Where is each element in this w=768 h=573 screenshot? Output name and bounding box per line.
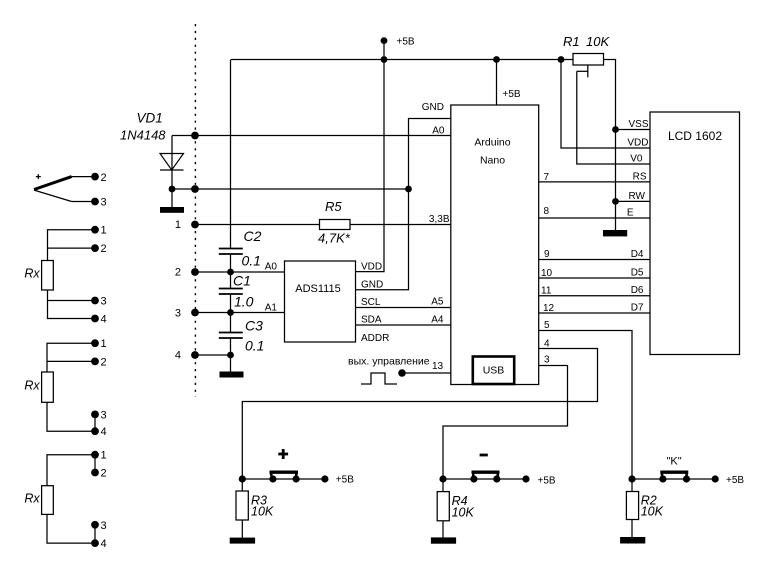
capacitor C1 bbox=[219, 273, 254, 310]
svg-text:VD1: VD1 bbox=[137, 111, 163, 126]
svg-text:3,3В: 3,3В bbox=[429, 214, 450, 225]
wire R1 wiper bbox=[577, 65, 650, 164]
ground diode bbox=[160, 189, 184, 213]
wire +5V vertical to ADS VDD bbox=[356, 60, 385, 272]
wire pin4 to R3 button bbox=[242, 349, 597, 480]
wire Rx3 terminal1 to resistor top bbox=[47, 455, 95, 486]
wire A0 net (diode to Arduino A0) bbox=[172, 135, 451, 137]
capacitor C3 bbox=[219, 318, 265, 354]
switch throw wire bbox=[34, 190, 72, 201]
wire E line pin8 bbox=[539, 217, 650, 219]
svg-text:+5В: +5В bbox=[726, 475, 744, 486]
svg-text:3: 3 bbox=[175, 308, 181, 320]
node +5V terminal of SB1 bbox=[321, 475, 328, 482]
node Rx1 terminal 3 bbox=[91, 297, 99, 305]
wire ch3 / ADS A1 line bbox=[194, 312, 285, 314]
svg-text:3: 3 bbox=[544, 355, 550, 366]
node ch1 terminal bbox=[191, 221, 199, 229]
node C-column y355 bbox=[227, 352, 234, 359]
wire ch2 / ADS A0 line bbox=[194, 271, 285, 273]
potentiometer R1 body bbox=[573, 54, 604, 66]
wire RS line pin7 bbox=[539, 181, 650, 183]
resistor Rx (block 3) bbox=[24, 486, 53, 515]
svg-text:2: 2 bbox=[175, 267, 181, 279]
wire Rx2 terminal3-terminal4 link bbox=[94, 414, 96, 431]
svg-text:2: 2 bbox=[101, 468, 107, 480]
svg-text:ADDR: ADDR bbox=[361, 333, 389, 344]
svg-text:10K: 10K bbox=[251, 505, 274, 519]
svg-text:RS: RS bbox=[633, 172, 647, 183]
wire SDA-A4 bbox=[356, 324, 451, 326]
node bus-561 bbox=[558, 56, 565, 63]
svg-text:2: 2 bbox=[101, 243, 107, 255]
resistor Rx (block 1) bbox=[24, 261, 53, 291]
polarity mark + bbox=[36, 174, 41, 179]
svg-text:4: 4 bbox=[544, 339, 550, 350]
wire junction to R2 bbox=[631, 479, 633, 492]
svg-text:1: 1 bbox=[101, 225, 107, 237]
svg-text:A1: A1 bbox=[265, 303, 278, 314]
svg-text:C3: C3 bbox=[245, 318, 263, 334]
wire junction to R4 bbox=[442, 479, 444, 492]
wire D6 line pin11 bbox=[539, 295, 650, 297]
wire Rx1 terminal3 bbox=[48, 300, 96, 302]
wire Rx1 terminal1 to resistor top bbox=[48, 230, 96, 261]
svg-text:C2: C2 bbox=[244, 228, 262, 244]
svg-text:Rx: Rx bbox=[24, 492, 40, 506]
label - (button name) bbox=[480, 454, 488, 457]
node Rx1 terminal 1 bbox=[91, 226, 99, 234]
wire VSS stub bbox=[616, 129, 651, 131]
capacitor C2 bbox=[219, 228, 262, 269]
svg-text:13: 13 bbox=[432, 361, 444, 372]
svg-text:A0: A0 bbox=[432, 126, 445, 137]
svg-text:Nano: Nano bbox=[480, 154, 505, 166]
ground R3 bbox=[230, 538, 255, 544]
node Rx3 terminal 2 bbox=[91, 469, 99, 477]
wire Rx3 terminal1-terminal2 link bbox=[94, 455, 96, 473]
wire R2 to ground bbox=[631, 520, 633, 538]
svg-text:1: 1 bbox=[175, 219, 181, 231]
diode VD1 bbox=[160, 136, 184, 171]
node Rx3 terminal 1 bbox=[91, 451, 99, 459]
ground capacitor column bbox=[220, 372, 244, 378]
svg-text:9: 9 bbox=[544, 249, 550, 260]
svg-text:+5В: +5В bbox=[336, 475, 354, 486]
wire SCL-A5 bbox=[356, 307, 451, 309]
svg-text:вых. управление: вых. управление bbox=[348, 356, 430, 368]
node ch2 terminal bbox=[191, 268, 199, 276]
svg-text:ADS1115: ADS1115 bbox=[295, 283, 340, 295]
wire VDD net (bus to LCD VDD) bbox=[561, 60, 650, 149]
svg-text:VDD: VDD bbox=[361, 262, 382, 273]
pulse symbol bbox=[361, 373, 397, 384]
pushbutton SB2 "-" contacts bbox=[470, 475, 500, 482]
node ch4 terminal bbox=[191, 351, 199, 359]
node terminal 2 bbox=[91, 173, 99, 181]
svg-text:0.1: 0.1 bbox=[245, 338, 264, 354]
svg-text:Arduino: Arduino bbox=[474, 136, 510, 148]
ground LCD bbox=[603, 230, 627, 236]
capacitor column wire top bbox=[230, 60, 232, 249]
pushbutton SB3 "K" contacts bbox=[659, 475, 690, 482]
wire ch1 / R5 / 3.3V line bbox=[194, 224, 451, 226]
svg-text:5: 5 bbox=[544, 320, 550, 331]
svg-text:+5В: +5В bbox=[538, 476, 556, 487]
svg-text:3: 3 bbox=[101, 197, 107, 209]
wire GND net vertical (Arduino GND to ADS GND) bbox=[356, 119, 451, 290]
switch lever (thick contact arm) bbox=[34, 177, 72, 190]
wire button-K row bbox=[632, 478, 715, 480]
node Rx3 terminal 3 bbox=[91, 521, 99, 529]
resistor R5 body bbox=[320, 220, 351, 230]
svg-text:A0: A0 bbox=[265, 262, 278, 273]
IC U1 ADC ADS1115 bbox=[285, 261, 356, 342]
svg-text:0.1: 0.1 bbox=[242, 253, 261, 269]
node C-column y272 bbox=[227, 269, 234, 276]
wire RW stub bbox=[616, 200, 651, 202]
node C-column y312 bbox=[227, 309, 234, 316]
node +5V terminal of SB2 bbox=[522, 475, 529, 482]
pushbutton SB2 "-" bridge bar bbox=[472, 472, 500, 476]
svg-text:Rx: Rx bbox=[24, 379, 40, 393]
svg-text:SCL: SCL bbox=[361, 297, 381, 308]
USB connector box bbox=[473, 357, 514, 385]
svg-text:+5В: +5В bbox=[503, 89, 521, 100]
svg-text:2: 2 bbox=[101, 172, 107, 184]
svg-text:A5: A5 bbox=[431, 297, 444, 308]
ground R2 bbox=[620, 537, 645, 544]
node R3 junction bbox=[239, 475, 246, 482]
svg-text:10K: 10K bbox=[586, 34, 610, 49]
node diode bottom bbox=[169, 186, 176, 193]
svg-text:A4: A4 bbox=[431, 315, 444, 326]
resistor Rx (block 2) bbox=[24, 372, 53, 402]
node +5V terminal of SB3 bbox=[712, 475, 719, 482]
node VSS bbox=[612, 126, 619, 133]
svg-text:Rx: Rx bbox=[24, 267, 40, 281]
node Rx2 terminal 3 bbox=[91, 411, 99, 419]
svg-text:R5: R5 bbox=[325, 199, 342, 214]
wire ch4 line bbox=[194, 354, 231, 356]
resistor R2 10K bbox=[626, 492, 663, 520]
svg-text:LCD 1602: LCD 1602 bbox=[668, 129, 722, 143]
node Rx2 terminal 2 bbox=[91, 358, 99, 366]
dashed connector boundary line bbox=[194, 24, 196, 397]
svg-text:1: 1 bbox=[101, 338, 107, 350]
ground R4 bbox=[431, 537, 456, 543]
svg-text:4: 4 bbox=[175, 350, 181, 362]
svg-text:GND: GND bbox=[422, 102, 444, 113]
node A0 on dashed line bbox=[191, 132, 199, 140]
svg-text:D7: D7 bbox=[631, 303, 644, 314]
svg-text:C1: C1 bbox=[233, 273, 251, 289]
wire Rx1 resistor bottom to terminal4 bbox=[48, 290, 96, 319]
svg-text:D4: D4 bbox=[631, 249, 644, 260]
node Rx3 terminal 4 bbox=[91, 539, 99, 547]
svg-text:8: 8 bbox=[544, 206, 550, 217]
svg-text:VSS: VSS bbox=[628, 119, 648, 130]
node Rx2 terminal 4 bbox=[91, 427, 99, 435]
node pin13 terminal bbox=[398, 369, 406, 377]
node R2 junction bbox=[628, 475, 635, 482]
node R4 junction bbox=[439, 475, 446, 482]
svg-text:3: 3 bbox=[101, 296, 107, 308]
wire junction to R3 bbox=[241, 479, 243, 491]
+5V flag top bbox=[381, 37, 415, 60]
wire Rx2 terminal2 bbox=[47, 360, 95, 362]
wire to terminal 3 bbox=[72, 201, 95, 203]
svg-text:1.0: 1.0 bbox=[234, 294, 254, 310]
wire +5V bus bbox=[231, 59, 573, 61]
node Rx1 terminal 2 bbox=[91, 244, 99, 252]
svg-text:VDD: VDD bbox=[627, 138, 648, 149]
resistor R4 10K bbox=[437, 492, 474, 521]
wire D5 line pin10 bbox=[539, 277, 650, 279]
wire C1-C3 bbox=[230, 294, 232, 332]
svg-text:4,7K*: 4,7K* bbox=[318, 231, 351, 246]
svg-text:12: 12 bbox=[543, 303, 555, 314]
wire Rx3 terminal3-terminal4 link bbox=[94, 525, 96, 543]
svg-text:SDA: SDA bbox=[361, 315, 382, 326]
wire D7 line pin12 bbox=[539, 312, 650, 314]
svg-text:"K": "K" bbox=[667, 456, 682, 468]
wire C3 to ground bbox=[230, 338, 232, 372]
wire pin3 to R4 button bbox=[443, 366, 568, 480]
resistor R3 10K bbox=[236, 491, 274, 520]
svg-text:1: 1 bbox=[101, 450, 107, 462]
svg-text:4: 4 bbox=[101, 314, 107, 326]
wire button-plus row bbox=[242, 478, 325, 480]
wire D4 line pin9 bbox=[539, 259, 650, 261]
wire VD1 cathode down bbox=[171, 170, 173, 189]
wire Rx1 terminal2 bbox=[48, 247, 96, 249]
node Rx1 terminal 4 bbox=[91, 315, 99, 323]
node RW bbox=[612, 198, 619, 205]
svg-text:GND: GND bbox=[361, 280, 383, 291]
wire +5V to Arduino top bbox=[497, 60, 521, 106]
svg-text:3: 3 bbox=[101, 409, 107, 421]
wire pin5 to K button bbox=[539, 331, 632, 480]
node ch3 terminal bbox=[191, 309, 199, 317]
svg-text:4: 4 bbox=[101, 426, 107, 438]
svg-text:10K: 10K bbox=[641, 505, 664, 519]
svg-text:D6: D6 bbox=[631, 285, 644, 296]
svg-text:10: 10 bbox=[541, 268, 553, 279]
svg-text:7: 7 bbox=[544, 172, 550, 183]
wire C2-C1 bbox=[230, 254, 232, 288]
svg-text:V0: V0 bbox=[630, 154, 643, 165]
svg-text:1N4148: 1N4148 bbox=[120, 128, 166, 143]
wire button-minus row bbox=[443, 478, 526, 480]
svg-text:R1: R1 bbox=[563, 34, 580, 49]
node bus-384 bbox=[381, 56, 388, 63]
svg-text:RW: RW bbox=[629, 191, 646, 202]
wire Rx2 resistor bottom to terminal4 bbox=[47, 402, 95, 431]
IC U2 Arduino Nano bbox=[451, 105, 539, 385]
label R1 10K bbox=[563, 34, 610, 49]
pushbutton SB1 "+" contacts bbox=[269, 475, 299, 482]
svg-text:2: 2 bbox=[101, 356, 107, 368]
wire Rx3 resistor bottom to terminal4 bbox=[47, 514, 95, 543]
wire R1 right to VSS/gnd column bbox=[604, 60, 616, 231]
wire R4 to ground bbox=[442, 521, 444, 538]
node gnd-net y189 bbox=[405, 186, 412, 193]
svg-text:11: 11 bbox=[541, 286, 552, 297]
pushbutton SB1 "+" bridge bar bbox=[270, 472, 299, 476]
svg-text:+5В: +5В bbox=[397, 37, 415, 48]
wire Rx2 terminal1 to resistor top bbox=[47, 343, 95, 372]
svg-text:E: E bbox=[627, 208, 634, 219]
wire R3 to ground bbox=[241, 520, 243, 538]
svg-text:D5: D5 bbox=[631, 268, 644, 279]
label + (button name) bbox=[278, 449, 288, 459]
wire pin13 bbox=[402, 372, 451, 374]
node dashed line y189 bbox=[191, 185, 199, 193]
svg-text:10K: 10K bbox=[452, 505, 475, 519]
node Rx2 terminal 1 bbox=[91, 339, 99, 347]
node terminal 3 bbox=[91, 198, 99, 206]
svg-text:4: 4 bbox=[101, 538, 107, 550]
LCD 1602 box bbox=[650, 112, 740, 355]
wire to terminal 2 bbox=[72, 176, 95, 178]
svg-text:3: 3 bbox=[101, 520, 107, 532]
wire diode-bottom net bbox=[172, 188, 409, 190]
pushbutton SB3 "K" bridge bar bbox=[660, 472, 688, 476]
svg-text:USB: USB bbox=[483, 365, 505, 377]
node bus-496 bbox=[493, 56, 500, 63]
